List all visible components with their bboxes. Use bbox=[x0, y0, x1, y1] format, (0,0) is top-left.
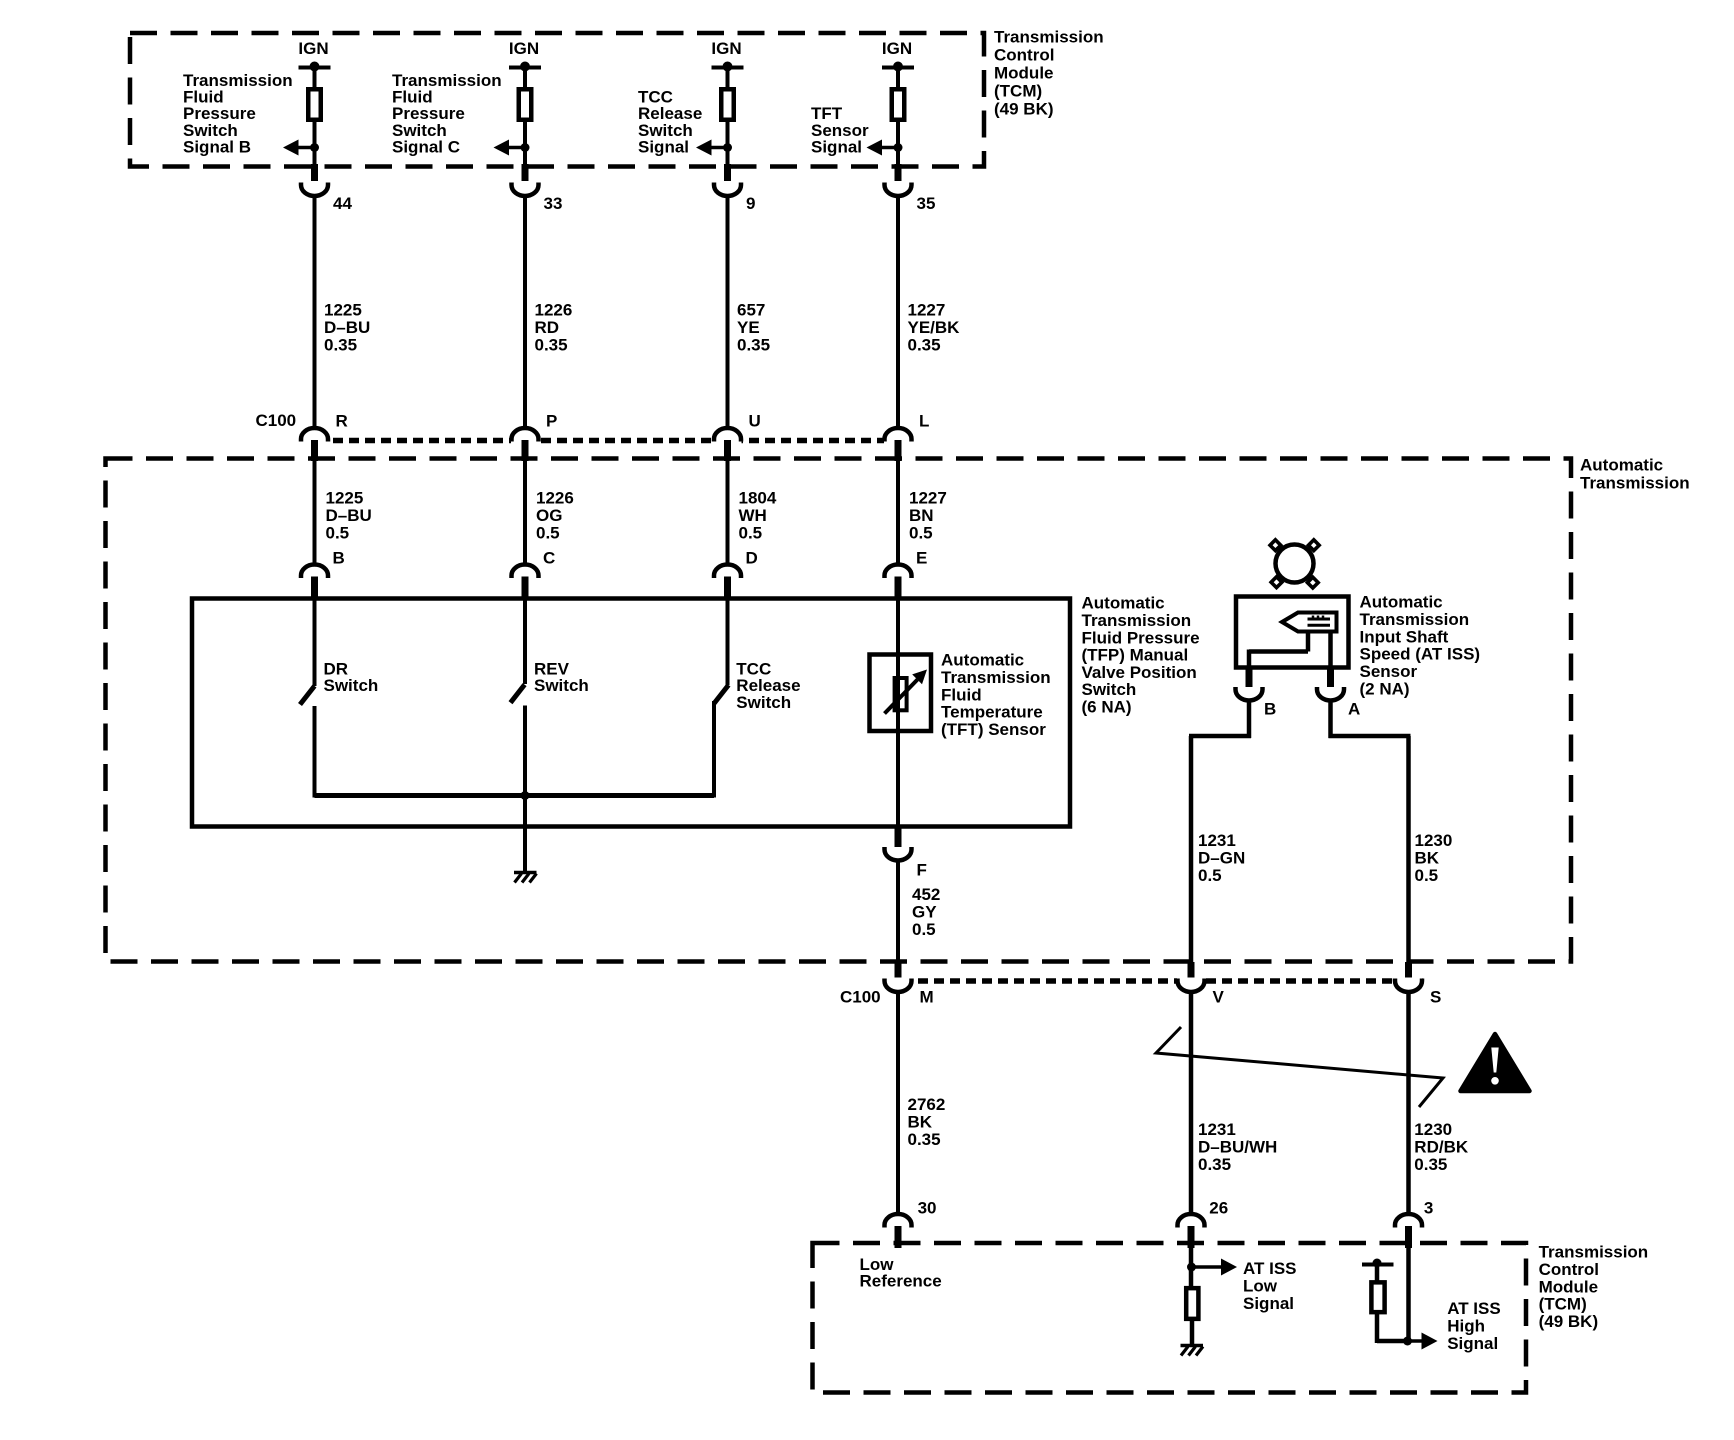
svg-text:L: L bbox=[919, 412, 929, 431]
wire: IGN to resistor (circuit 2) bbox=[523, 67, 527, 89]
wire: ISS coil to pin A (internal) bbox=[1328, 632, 1333, 671]
label: wire 1225 D–BU bbox=[326, 489, 372, 543]
label: AT ISS Low Signal bbox=[1243, 1259, 1297, 1313]
terminal bar (high bias feed) bbox=[1362, 1259, 1394, 1268]
switch DR (blade) bbox=[300, 686, 315, 705]
svg-text:Transmission: Transmission bbox=[941, 668, 1051, 687]
switch REV (blade) bbox=[511, 685, 525, 703]
svg-text:2762: 2762 bbox=[908, 1095, 946, 1114]
svg-text:452: 452 bbox=[912, 885, 940, 904]
wire: resistor to junction (circuit 4) bbox=[896, 122, 900, 150]
svg-text:0.5: 0.5 bbox=[1198, 866, 1222, 885]
svg-text:High: High bbox=[1447, 1317, 1485, 1336]
label: TFP switch designation bbox=[1082, 594, 1200, 717]
wire: circuit 2 inside transmission (C100 to switch box) bbox=[523, 460, 527, 566]
wire: resistor to ground (TCM) bbox=[1190, 1321, 1195, 1345]
svg-text:9: 9 bbox=[746, 194, 755, 213]
svg-text:AT ISS: AT ISS bbox=[1243, 1259, 1297, 1278]
connector terminal D (TFP switch) bbox=[714, 549, 758, 601]
label: wire 657 YE bbox=[737, 301, 770, 355]
connector C100 terminal L bbox=[885, 412, 930, 462]
connector pin 44 (TCM top) bbox=[301, 164, 352, 213]
svg-text:Transmission: Transmission bbox=[1539, 1243, 1649, 1262]
label: wire 1231 D-GN bbox=[1198, 831, 1245, 885]
junction dot (AT ISS high) bbox=[1403, 1337, 1412, 1346]
svg-text:1225: 1225 bbox=[324, 301, 362, 320]
wire: circuit 4 inside transmission (C100 to switch box) bbox=[896, 460, 900, 566]
signal arrow (circuit 1) bbox=[283, 140, 315, 156]
component box: AT ISS sensor bbox=[1236, 597, 1349, 668]
connector C100 terminal M bbox=[885, 962, 934, 1007]
connector pin 33 (TCM top) bbox=[512, 164, 563, 213]
connector C100 terminal R bbox=[301, 412, 348, 462]
svg-text:0.35: 0.35 bbox=[908, 1130, 941, 1149]
wire: DR switch to bus bbox=[313, 706, 317, 798]
svg-text:0.5: 0.5 bbox=[326, 523, 350, 542]
svg-text:0.35: 0.35 bbox=[535, 335, 568, 354]
power node IGN (circuit 3) bbox=[711, 39, 743, 72]
label: signal name (circuit 4) bbox=[811, 104, 869, 156]
connector pin 9 (TCM top) bbox=[714, 164, 755, 213]
label: wire 1226 RD bbox=[535, 301, 573, 355]
junction dot (circuit 3) bbox=[723, 143, 732, 152]
resistor: AT ISS high bias bbox=[1371, 1282, 1384, 1312]
svg-text:Signal: Signal bbox=[638, 138, 689, 157]
label: wire 1227 YE/BK bbox=[908, 301, 961, 355]
svg-text:Input Shaft: Input Shaft bbox=[1360, 627, 1449, 646]
svg-text:BK: BK bbox=[908, 1112, 933, 1131]
svg-text:Reference: Reference bbox=[860, 1272, 942, 1291]
wire: 1231 D-BU/WH run (V to pin 26) bbox=[1189, 992, 1194, 1215]
connector pin 30 (TCM bottom) bbox=[885, 1198, 937, 1248]
svg-text:BK: BK bbox=[1415, 848, 1440, 867]
svg-text:1230: 1230 bbox=[1415, 831, 1453, 850]
twisted pair marker bbox=[1156, 1027, 1443, 1107]
svg-text:Switch: Switch bbox=[1082, 680, 1137, 699]
ground (TCM internal) bbox=[1181, 1346, 1204, 1356]
svg-text:0.5: 0.5 bbox=[739, 523, 763, 542]
wire: TCC release switch feed bbox=[726, 600, 730, 685]
connector terminal B (ISS) bbox=[1236, 668, 1277, 719]
svg-text:Switch: Switch bbox=[736, 693, 791, 712]
label: wire 1231 D-BU/WH bbox=[1198, 1120, 1277, 1174]
svg-text:IGN: IGN bbox=[298, 39, 328, 58]
svg-text:35: 35 bbox=[917, 194, 936, 213]
svg-text:S: S bbox=[1430, 988, 1441, 1007]
warning symbol (caution triangle) bbox=[1461, 1034, 1530, 1091]
module box: Transmission Control Module (TCM) bottom bbox=[813, 1243, 1527, 1393]
label: signal name (circuit 1) bbox=[183, 71, 293, 157]
svg-text:B: B bbox=[1264, 700, 1276, 719]
label: AT ISS sensor designation bbox=[1360, 593, 1481, 699]
junction dot (AT ISS low) bbox=[1187, 1263, 1196, 1272]
label: wire 1225 D–BU bbox=[324, 301, 370, 355]
svg-text:Switch: Switch bbox=[324, 676, 379, 695]
wire: resistor to junction bbox=[1377, 1314, 1409, 1343]
wire: IGN to resistor (circuit 1) bbox=[313, 67, 317, 89]
signal arrow (circuit 2) bbox=[494, 140, 526, 156]
label: wire 1804 WH bbox=[739, 489, 777, 543]
label: signal name (circuit 3) bbox=[638, 88, 702, 157]
label: TCM (top) designation bbox=[994, 27, 1104, 118]
svg-text:Valve Position: Valve Position bbox=[1082, 663, 1197, 682]
label: TFT sensor designation bbox=[941, 651, 1051, 739]
component box: Automatic Transmission (dashed) bbox=[106, 459, 1572, 962]
svg-text:1226: 1226 bbox=[535, 301, 573, 320]
svg-text:1231: 1231 bbox=[1198, 1120, 1236, 1139]
svg-text:0.35: 0.35 bbox=[324, 335, 357, 354]
resistor: TCM pull-up (circuit 3) bbox=[721, 89, 734, 120]
connector line C100 (upper, dotted) bbox=[301, 436, 913, 446]
wire: 1230 BK run (A to C100 S) bbox=[1329, 701, 1411, 965]
wire: REV switch to ground bbox=[523, 706, 527, 872]
svg-text:F: F bbox=[917, 861, 927, 880]
svg-text:(TFP) Manual: (TFP) Manual bbox=[1082, 646, 1189, 665]
svg-text:Automatic: Automatic bbox=[1082, 594, 1165, 613]
connector terminal B (TFP switch) bbox=[301, 549, 345, 601]
connector terminal C (TFP switch) bbox=[512, 549, 556, 601]
wire: junction to TCM pin (circuit 3) bbox=[726, 148, 730, 167]
svg-text:Sensor: Sensor bbox=[1360, 662, 1418, 681]
svg-text:0.5: 0.5 bbox=[536, 523, 560, 542]
svg-text:1231: 1231 bbox=[1198, 831, 1236, 850]
connector C100 terminal S bbox=[1395, 962, 1441, 1007]
svg-text:0.35: 0.35 bbox=[908, 335, 941, 354]
connector line C100 (lower, dotted) bbox=[884, 977, 1423, 987]
svg-text:WH: WH bbox=[739, 506, 767, 525]
wire: circuit 3 inside transmission (C100 to switch box) bbox=[726, 460, 730, 566]
svg-text:Transmission: Transmission bbox=[1082, 611, 1192, 630]
power node IGN (circuit 4) bbox=[882, 39, 914, 72]
svg-text:1227: 1227 bbox=[908, 301, 946, 320]
svg-text:26: 26 bbox=[1209, 1198, 1228, 1217]
wire: 1230 RD/BK run (S to pin 3) bbox=[1406, 992, 1411, 1215]
svg-text:Transmission: Transmission bbox=[1580, 473, 1690, 492]
svg-text:A: A bbox=[1348, 700, 1360, 719]
svg-text:Automatic: Automatic bbox=[1360, 593, 1443, 612]
svg-text:IGN: IGN bbox=[509, 39, 539, 58]
svg-text:AT ISS: AT ISS bbox=[1447, 1299, 1501, 1318]
wire: DR switch feed bbox=[313, 600, 317, 686]
svg-text:(TCM): (TCM) bbox=[1539, 1295, 1587, 1314]
svg-text:1227: 1227 bbox=[909, 489, 947, 508]
wire: 452 GY run (F to C100 M) bbox=[896, 861, 900, 965]
svg-text:0.5: 0.5 bbox=[912, 920, 936, 939]
svg-text:IGN: IGN bbox=[882, 39, 912, 58]
svg-text:3: 3 bbox=[1424, 1198, 1433, 1217]
svg-text:D–BU/WH: D–BU/WH bbox=[1198, 1138, 1277, 1157]
wire: junction to TCM pin (circuit 2) bbox=[523, 148, 527, 167]
svg-text:YE/BK: YE/BK bbox=[908, 318, 961, 337]
junction dot (circuit 1) bbox=[310, 143, 319, 152]
connector C100 terminal V bbox=[1178, 962, 1225, 1007]
wire: pin 26 to AT ISS low node bbox=[1189, 1248, 1194, 1288]
svg-text:1230: 1230 bbox=[1414, 1120, 1452, 1139]
svg-text:M: M bbox=[920, 988, 934, 1007]
variable arrow (TFT thermistor) bbox=[885, 670, 928, 714]
svg-text:Switch: Switch bbox=[534, 676, 589, 695]
wire: IGN to resistor (circuit 3) bbox=[726, 67, 730, 89]
svg-text:Control: Control bbox=[994, 45, 1054, 64]
ground (switch common) bbox=[514, 873, 537, 883]
reluctor wheel symbol (AT ISS) bbox=[1270, 540, 1319, 588]
connector pin 35 (TCM top) bbox=[885, 164, 936, 213]
switch TCC Release (blade) bbox=[714, 685, 729, 704]
svg-text:IGN: IGN bbox=[711, 39, 741, 58]
connector pin 26 (TCM bottom) bbox=[1178, 1198, 1229, 1248]
svg-text:1225: 1225 bbox=[326, 489, 364, 508]
junction dot (circuit 2) bbox=[521, 143, 530, 152]
svg-text:YE: YE bbox=[737, 318, 760, 337]
label: signal name (circuit 2) bbox=[392, 71, 502, 157]
svg-text:R: R bbox=[336, 412, 348, 431]
svg-text:33: 33 bbox=[544, 194, 563, 213]
svg-text:B: B bbox=[333, 549, 345, 568]
resistor: TCM pull-up (circuit 4) bbox=[892, 89, 905, 120]
svg-text:44: 44 bbox=[333, 194, 352, 213]
wire: circuit 2 harness run (TCM to C100) bbox=[523, 196, 527, 429]
connector C100 terminal U bbox=[714, 412, 761, 462]
connector terminal A (ISS) bbox=[1317, 668, 1360, 719]
label: wire 452 GY bbox=[912, 885, 940, 939]
connector pin 3 (TCM bottom) bbox=[1395, 1198, 1433, 1248]
wire: circuit 1 inside transmission (C100 to switch box) bbox=[313, 460, 317, 566]
svg-text:1226: 1226 bbox=[536, 489, 574, 508]
svg-text:Transmission: Transmission bbox=[994, 27, 1104, 46]
label: connector C100 (lower) bbox=[840, 988, 881, 1007]
resistor: TCM pull-up (circuit 1) bbox=[308, 89, 321, 120]
svg-text:0.35: 0.35 bbox=[1198, 1155, 1231, 1174]
svg-text:0.35: 0.35 bbox=[737, 335, 770, 354]
wire: pin 3 to AT ISS high node bbox=[1406, 1248, 1411, 1343]
svg-text:(2 NA): (2 NA) bbox=[1360, 680, 1410, 699]
wire: resistor to junction (circuit 2) bbox=[523, 122, 527, 150]
svg-text:(6 NA): (6 NA) bbox=[1082, 698, 1132, 717]
label: wire 2762 BK bbox=[908, 1095, 946, 1149]
connector terminal F (TFT sensor) bbox=[885, 828, 927, 880]
label: TCC Release Switch bbox=[736, 659, 800, 711]
wire: junction to TCM pin (circuit 1) bbox=[313, 148, 317, 167]
label: REV Switch bbox=[534, 659, 589, 695]
wire: TCC release switch to bus bbox=[712, 701, 716, 798]
svg-text:C: C bbox=[543, 549, 555, 568]
label: wire 1230 RD/BK bbox=[1414, 1120, 1469, 1174]
svg-text:Speed (AT ISS): Speed (AT ISS) bbox=[1360, 645, 1481, 664]
wire: TFT sensor feed (upper) bbox=[896, 600, 900, 654]
signal arrow: AT ISS Low bbox=[1192, 1259, 1238, 1276]
connector terminal E (TFP switch) bbox=[885, 549, 928, 601]
component box: TFP manual valve position switch bbox=[192, 599, 1070, 827]
svg-text:0.5: 0.5 bbox=[909, 523, 933, 542]
svg-text:Low: Low bbox=[1243, 1277, 1278, 1296]
wire: 2762 BK run (M to pin 30) bbox=[896, 992, 900, 1215]
svg-text:RD/BK: RD/BK bbox=[1414, 1138, 1469, 1157]
wire: IGN to resistor (circuit 4) bbox=[896, 67, 900, 89]
svg-text:1804: 1804 bbox=[739, 489, 777, 508]
svg-text:657: 657 bbox=[737, 301, 765, 320]
svg-text:Signal C: Signal C bbox=[392, 138, 460, 157]
label: connector C100 (upper) bbox=[256, 411, 297, 430]
wire: 1231 D-GN run (B to C100 V) bbox=[1189, 701, 1251, 965]
svg-text:D: D bbox=[746, 549, 758, 568]
wire: resistor to junction (circuit 3) bbox=[726, 122, 730, 150]
label: Automatic Transmission bbox=[1580, 455, 1690, 492]
label: Low Reference bbox=[860, 1255, 942, 1291]
svg-text:(49 BK): (49 BK) bbox=[994, 99, 1054, 118]
svg-text:Fluid Pressure: Fluid Pressure bbox=[1082, 628, 1200, 647]
svg-text:Signal B: Signal B bbox=[183, 138, 251, 157]
label: wire 1227 BN bbox=[909, 489, 947, 543]
svg-text:C100: C100 bbox=[256, 411, 297, 430]
power node IGN (circuit 1) bbox=[298, 39, 330, 72]
component box: TFT sensor bbox=[870, 655, 932, 732]
svg-text:D–BU: D–BU bbox=[326, 506, 372, 525]
svg-text:U: U bbox=[749, 412, 761, 431]
svg-text:0.35: 0.35 bbox=[1414, 1155, 1447, 1174]
label: wire 1230 BK bbox=[1415, 831, 1453, 885]
wire: resistor to junction (circuit 1) bbox=[313, 122, 317, 150]
svg-text:Control: Control bbox=[1539, 1260, 1599, 1279]
module box: Transmission Control Module (TCM) top bbox=[130, 33, 984, 167]
label: TCM (bottom) designation bbox=[1539, 1243, 1649, 1331]
thermistor element (TFT) bbox=[895, 678, 907, 710]
label: wire 1226 OG bbox=[536, 489, 574, 543]
wire: REV switch feed bbox=[523, 600, 527, 684]
pickup coil symbol (AT ISS) bbox=[1282, 613, 1337, 632]
svg-text:Signal: Signal bbox=[1447, 1334, 1498, 1353]
svg-text:Signal: Signal bbox=[1243, 1294, 1294, 1313]
svg-text:RD: RD bbox=[535, 318, 560, 337]
wire: circuit 3 harness run (TCM to C100) bbox=[726, 196, 730, 429]
wire: switch common bus bbox=[315, 793, 715, 798]
signal arrow (circuit 3) bbox=[696, 140, 728, 156]
svg-text:30: 30 bbox=[918, 1198, 937, 1217]
svg-text:D–GN: D–GN bbox=[1198, 848, 1245, 867]
svg-text:GY: GY bbox=[912, 902, 937, 921]
svg-text:(TCM): (TCM) bbox=[994, 81, 1042, 100]
wire: bar to resistor bbox=[1375, 1265, 1380, 1284]
svg-text:V: V bbox=[1213, 988, 1225, 1007]
svg-text:Module: Module bbox=[994, 63, 1054, 82]
wire: ISS coil to pin B (internal) bbox=[1249, 632, 1308, 671]
svg-text:BN: BN bbox=[909, 506, 934, 525]
label: DR Switch bbox=[324, 659, 379, 695]
svg-text:Fluid: Fluid bbox=[941, 685, 982, 704]
svg-text:Transmission: Transmission bbox=[1360, 610, 1470, 629]
svg-text:OG: OG bbox=[536, 506, 562, 525]
svg-text:0.5: 0.5 bbox=[1415, 866, 1439, 885]
resistor: TCM pull-up (circuit 2) bbox=[519, 89, 532, 120]
wire: circuit 4 harness run (TCM to C100) bbox=[896, 196, 900, 429]
junction dot (circuit 4) bbox=[894, 143, 903, 152]
label: AT ISS High Signal bbox=[1447, 1299, 1501, 1353]
svg-text:Temperature: Temperature bbox=[941, 703, 1043, 722]
svg-text:(TFT) Sensor: (TFT) Sensor bbox=[941, 720, 1046, 739]
svg-text:Signal: Signal bbox=[811, 138, 862, 157]
svg-text:Module: Module bbox=[1539, 1277, 1599, 1296]
junction dot (switch common bus) bbox=[521, 791, 530, 800]
svg-text:Automatic: Automatic bbox=[941, 651, 1024, 670]
signal arrow: AT ISS High bbox=[1409, 1333, 1438, 1350]
svg-text:P: P bbox=[546, 412, 557, 431]
resistor: AT ISS low bias bbox=[1186, 1288, 1198, 1319]
connector C100 terminal P bbox=[512, 412, 558, 462]
svg-text:Automatic: Automatic bbox=[1580, 455, 1663, 474]
svg-text:E: E bbox=[916, 549, 927, 568]
wire: circuit 1 harness run (TCM to C100) bbox=[313, 196, 317, 429]
svg-text:C100: C100 bbox=[840, 988, 881, 1007]
wire: TFT sensor through-wire bbox=[896, 654, 900, 829]
power node IGN (circuit 2) bbox=[509, 39, 541, 72]
svg-text:D–BU: D–BU bbox=[324, 318, 370, 337]
svg-text:(49 BK): (49 BK) bbox=[1539, 1312, 1599, 1331]
wire: junction to TCM pin (circuit 4) bbox=[896, 148, 900, 167]
signal arrow (circuit 4) bbox=[867, 140, 899, 156]
